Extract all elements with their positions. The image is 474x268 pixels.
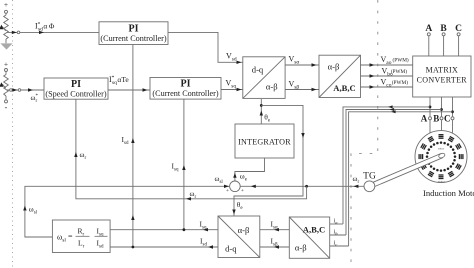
svg-text:(PWM): (PWM) [392, 79, 408, 86]
label Isbeta [271, 237, 278, 248]
svg-text:+: + [4, 0, 8, 9]
svg-text:MATRIX: MATRIX [426, 65, 458, 74]
svg-text:(PWM): (PWM) [393, 57, 409, 64]
wire wr feedback [74, 99, 306, 200]
wire Vsq [221, 88, 243, 91]
wire Vsd [168, 32, 243, 64]
label theta-e upper [264, 113, 271, 124]
label Vco PWM [381, 78, 409, 89]
svg-text:B: B [433, 114, 439, 124]
block ABC to alphabeta [289, 217, 329, 258]
wire converter output C [451, 97, 454, 133]
block PI current controller q-axis [150, 78, 221, 100]
svg-text:A: A [421, 114, 428, 124]
label Vbo PWM [382, 67, 408, 78]
svg-text:α-β: α-β [295, 242, 307, 252]
block dq to alphabeta [243, 57, 285, 99]
supply input A [425, 24, 432, 56]
svg-text:stator: stator [438, 179, 446, 183]
svg-text:TG: TG [363, 172, 376, 182]
svg-text:C: C [444, 114, 451, 124]
svg-text:PI: PI [129, 24, 139, 35]
wire wr from TG [240, 185, 364, 188]
wire Isalpha [260, 228, 290, 231]
motor shaft [371, 152, 446, 187]
svg-text:CONVERTER: CONVERTER [417, 76, 468, 85]
svg-text:rotor: rotor [438, 146, 445, 150]
supply input B [440, 24, 447, 56]
block matrix converter [413, 56, 471, 97]
svg-text:INTEGRATOR: INTEGRATOR [238, 138, 291, 147]
label wsl near summing [215, 174, 224, 185]
svg-text:=: = [68, 232, 73, 241]
label Isd bottom [200, 237, 207, 248]
svg-text:A,B,C: A,B,C [303, 225, 325, 235]
label wr* [31, 93, 39, 104]
label Isq on vertical [172, 162, 179, 173]
label Isalpha [271, 220, 278, 231]
svg-text:A,B,C: A,B,C [333, 83, 355, 93]
wire theta-e [232, 99, 304, 216]
svg-text:+: + [4, 60, 8, 69]
wire Vbo PWM [361, 74, 413, 77]
label Isq bottom [200, 220, 207, 231]
svg-text:α-β: α-β [238, 225, 250, 235]
wire Vco PWM [361, 85, 413, 88]
dashed system boundary [351, 0, 378, 268]
wire Vsbeta [285, 88, 319, 91]
label Vsd [226, 52, 237, 63]
wire current tap ia [343, 105, 430, 224]
svg-text:(PWM): (PWM) [391, 68, 407, 75]
label Isd on vertical [122, 135, 129, 146]
wire ib [330, 234, 346, 236]
label wr on feedback line [190, 189, 197, 200]
wire speed reference [7, 88, 44, 91]
label wr near TG [353, 174, 360, 185]
svg-text:+: + [241, 188, 244, 194]
label ib [334, 229, 339, 237]
label induction motor [423, 188, 474, 198]
svg-text:(Current Controller): (Current Controller) [152, 89, 218, 98]
wire Isd* reference [7, 31, 99, 34]
label Vao PWM [381, 55, 409, 66]
svg-text:d-q: d-q [252, 65, 264, 75]
wire ic [330, 245, 349, 247]
tachogenerator TG [363, 172, 376, 192]
block alphabeta to ABC [319, 55, 361, 97]
svg-text:d-q: d-q [225, 243, 237, 253]
svg-text:α-β: α-β [328, 62, 340, 72]
label Vsalpha [289, 55, 300, 66]
wire Isd feedback vertical [131, 45, 134, 248]
wire Isq feedback vertical [182, 99, 185, 230]
label Vsbeta [289, 80, 300, 91]
label ia [334, 218, 339, 226]
wire we to integrator [233, 158, 264, 181]
wire current tap ib [346, 108, 442, 235]
summing junction we [226, 181, 244, 194]
motor terminal labels A B C [421, 114, 454, 124]
wire Vsalpha [285, 63, 319, 66]
supply input C [455, 24, 462, 56]
wire Isbeta [260, 245, 290, 248]
label wr on vertical [80, 150, 87, 161]
wire converter output B [440, 97, 443, 131]
wire Isq* reference [108, 88, 150, 91]
svg-text:α-β: α-β [266, 81, 278, 91]
block integrator [235, 124, 294, 158]
block slip frequency calculator [52, 220, 110, 253]
wire ia [330, 223, 343, 225]
svg-text:+: + [226, 188, 229, 194]
label theta-e lower [237, 200, 244, 211]
svg-text:Induction Motor: Induction Motor [423, 188, 474, 198]
wire wsl [23, 185, 229, 237]
wire Vao PWM [361, 63, 413, 66]
label wsl on vertical [29, 205, 38, 216]
label Isd* aPhi [35, 21, 55, 32]
gray arrow below P1 [0, 43, 12, 49]
block PI speed controller [44, 78, 108, 99]
potentiometer P2 speed reference [0, 60, 8, 112]
label Isq* aTe [109, 75, 129, 86]
label ic [334, 240, 338, 248]
label we [240, 172, 248, 183]
block PI current controller d-axis [99, 22, 168, 45]
svg-text:-: - [5, 103, 8, 112]
svg-text:(Current Controller): (Current Controller) [100, 34, 166, 43]
wire current tap ic [349, 110, 453, 246]
wire Isd to slip calculator [110, 245, 218, 248]
label Vsq [226, 79, 237, 90]
block alphabeta to dq [218, 216, 260, 258]
svg-text:(Speed Controller): (Speed Controller) [45, 89, 106, 98]
induction motor [415, 131, 467, 184]
wire Isq to slip calculator [110, 228, 218, 231]
potentiometer P1 flux reference [0, 0, 8, 43]
wire converter output A [429, 97, 432, 134]
